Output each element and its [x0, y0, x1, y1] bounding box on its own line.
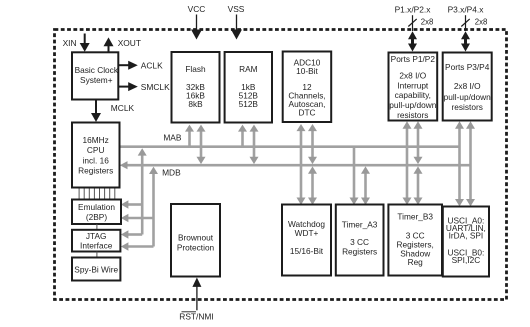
MCLK label [111, 103, 135, 113]
MCLK arrow [91, 100, 101, 122]
svg-text:512B: 512B [239, 99, 259, 109]
MAB label [163, 132, 182, 142]
svg-text:Flash: Flash [185, 64, 206, 74]
svg-text:Basic Clock: Basic Clock [75, 65, 119, 75]
svg-text:VSS: VSS [228, 4, 245, 14]
VSS arrow [231, 15, 242, 40]
P1 wire with slash [408, 15, 416, 31]
svg-text:capability,: capability, [395, 90, 431, 100]
Timer_A3 block [336, 205, 384, 276]
svg-text:pull-up/down: pull-up/down [389, 100, 436, 110]
Timer_B3 block [388, 205, 442, 276]
svg-text:2x8: 2x8 [475, 18, 488, 27]
svg-text:3 CC: 3 CC [350, 237, 369, 247]
wire ADC10-Watchdog MAB column [297, 124, 306, 205]
svg-text:8kB: 8kB [188, 99, 203, 109]
svg-text:resistors: resistors [452, 102, 483, 112]
svg-text:Interface: Interface [80, 241, 113, 251]
svg-text:CPU: CPU [87, 145, 105, 155]
svg-text:Registers: Registers [342, 247, 377, 257]
MDB bus [120, 161, 471, 169]
svg-text:15/16-Bit: 15/16-Bit [290, 246, 324, 256]
svg-text:VCC: VCC [188, 4, 206, 14]
svg-text:XIN: XIN [63, 38, 77, 48]
RAM block [225, 52, 272, 123]
svg-text:16MHz: 16MHz [83, 135, 109, 145]
SMCLK arrow [118, 82, 138, 91]
svg-text:P1.x/P2.x: P1.x/P2.x [395, 4, 432, 14]
XOUT pin label [118, 38, 141, 48]
Flash block [172, 52, 220, 123]
P3 double arrow [461, 31, 470, 51]
XIN arrow [80, 34, 90, 52]
wire PortsP1P2-TimerB3 MAB column [403, 121, 412, 205]
SMCLK label [141, 82, 170, 92]
svg-text:Ports P3/P4: Ports P3/P4 [445, 62, 490, 72]
svg-text:MDB: MDB [162, 168, 181, 178]
svg-text:Brownout: Brownout [178, 233, 214, 243]
Watchdog WDT+ block [282, 205, 331, 276]
VCC arrow [191, 15, 202, 40]
wire Emulation-JTAG [96, 224, 98, 230]
svg-text:Protection: Protection [177, 243, 215, 253]
P3 wire with slash [461, 15, 469, 31]
svg-text:pull-up/down: pull-up/down [444, 92, 491, 102]
svg-text:P3.x/P4.x: P3.x/P4.x [448, 4, 485, 14]
wire PortsP3P4-USCI MDB column [466, 121, 475, 206]
JTAG Interface block [72, 230, 120, 252]
wire MAB-TimerA3 [350, 147, 359, 205]
wire MDB-Watchdog [308, 166, 317, 205]
svg-text:Emulation: Emulation [78, 202, 115, 212]
ACLK arrow [118, 61, 138, 70]
VSS pin label [228, 4, 245, 14]
svg-text:RST/NMI: RST/NMI [179, 312, 213, 322]
svg-text:2x8 I/O: 2x8 I/O [454, 81, 481, 91]
wire RAM-MDB [250, 125, 259, 165]
svg-text:RAM: RAM [239, 64, 258, 74]
svg-text:WDT+: WDT+ [295, 228, 319, 238]
wire Flash-MDB [197, 125, 206, 165]
svg-text:System+: System+ [80, 75, 113, 85]
Basic Clock System block [72, 52, 119, 99]
svg-text:Spy-Bi Wire: Spy-Bi Wire [74, 264, 118, 274]
wire Flash-MAB [185, 125, 194, 148]
MAB bus [120, 145, 460, 148]
svg-text:Interrupt: Interrupt [397, 80, 429, 90]
svg-text:ACLK: ACLK [141, 60, 163, 70]
svg-text:XOUT: XOUT [118, 38, 141, 48]
svg-text:10-Bit: 10-Bit [296, 66, 318, 76]
MDB label [162, 168, 181, 178]
svg-text:MAB: MAB [163, 132, 182, 142]
Ports P3/P4 block [443, 53, 492, 121]
svg-text:Ports P1/P2: Ports P1/P2 [391, 54, 436, 64]
wire PortsP1P2-MDB [414, 121, 423, 164]
svg-text:(2BP): (2BP) [86, 212, 107, 222]
VCC pin label [188, 4, 206, 14]
svg-text:SMCLK: SMCLK [141, 82, 170, 92]
svg-text:SPI,I2C: SPI,I2C [452, 255, 481, 265]
P1 2x8 bus width label [421, 18, 434, 27]
svg-text:IrDA, SPI: IrDA, SPI [449, 230, 484, 240]
svg-text:DTC: DTC [298, 108, 315, 118]
svg-text:Timer_A3: Timer_A3 [342, 220, 378, 230]
RST/NMI pin label [179, 312, 213, 322]
svg-text:Timer_B3: Timer_B3 [397, 212, 433, 222]
Emulation block [72, 200, 121, 225]
RST/NMI arrow [192, 278, 201, 311]
P1 double arrow [408, 31, 417, 51]
svg-text:Reg: Reg [408, 257, 424, 267]
svg-text:JTAG: JTAG [86, 231, 107, 241]
svg-text:2x8: 2x8 [421, 18, 434, 27]
Brownout Protection block [171, 204, 220, 277]
P3 2x8 bus width label [475, 18, 488, 27]
wire MDB-TimerB3 [414, 166, 423, 205]
Spy-Bi Wire block [72, 258, 120, 281]
Ports P1/P2 block [389, 53, 438, 121]
P1.x/P2.x pin label [395, 4, 432, 14]
wire RAM-MAB [238, 125, 247, 148]
wire PortsP3P4-USCI MAB column [455, 121, 464, 206]
wire MDB-Emulation/JTAG line B [121, 167, 158, 251]
chip boundary dashed border [55, 30, 507, 300]
XIN pin label [63, 38, 77, 48]
svg-text:Registers: Registers [78, 165, 113, 175]
P3.x/P4.x pin label [448, 4, 485, 14]
wire MDB-TimerA3 [361, 166, 370, 205]
ADC10 block [283, 52, 332, 123]
USCI block [443, 207, 489, 277]
XOUT arrow [104, 37, 114, 52]
CPU block [72, 123, 120, 188]
svg-text:incl. 16: incl. 16 [83, 155, 110, 165]
svg-text:resistors: resistors [397, 110, 428, 120]
wire MAB-Emulation/JTAG line A [121, 148, 147, 239]
svg-text:MCLK: MCLK [111, 103, 135, 113]
svg-text:2x8 I/O: 2x8 I/O [399, 71, 426, 81]
CPU-Emulation hatch bus [79, 189, 115, 200]
wire JTAG-SpyBiWire [96, 252, 98, 258]
ACLK label [141, 60, 163, 70]
wire ADC10-MDB [308, 124, 317, 164]
